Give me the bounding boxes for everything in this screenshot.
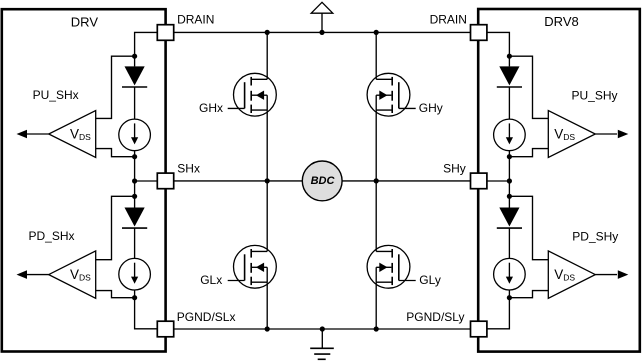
svg-text:SHy: SHy (443, 162, 466, 176)
wire PU junction to SHy node (508, 157, 510, 181)
svg-text:GLx: GLx (200, 273, 222, 287)
svg-text:DS: DS (563, 273, 575, 283)
svg-text:PGND/SLy: PGND/SLy (406, 310, 464, 324)
svg-text:DRAIN: DRAIN (430, 13, 467, 27)
wire x half-bridge (GHx source to mid bus) (266, 110, 268, 181)
junction mid bus / y half-bridge (374, 178, 379, 183)
wire PD comparator upper input (96, 196, 135, 259)
wire x half-bridge (mid bus to GLx drain) (266, 181, 268, 252)
terminal DRAIN (DRV) (157, 25, 173, 41)
wire diode D3 anode (508, 56, 510, 66)
svg-text:PU_SHx: PU_SHx (33, 88, 79, 102)
wire SHy node to PD branch right (508, 181, 510, 196)
svg-text:V: V (554, 267, 563, 282)
wire PD comparator upper input right (509, 196, 548, 259)
junction top bus / GHx drain (265, 30, 270, 35)
wire PU comparator upper input (96, 56, 135, 118)
wire SHx node to PD branch (134, 181, 136, 196)
comparator VDS PD_SHx (17, 251, 96, 298)
wire PU comparator upper input right (509, 56, 548, 118)
wire diode D1 anode (134, 56, 136, 66)
wire I4 to junction (508, 290, 510, 298)
transistor GHx (228, 73, 277, 116)
svg-text:PGND/SLx: PGND/SLx (177, 310, 236, 324)
wire y half-bridge drain (top bus to GHy) (375, 32, 377, 79)
label GLy (419, 273, 441, 287)
current source I3 (494, 119, 526, 151)
wire top bus (DRAIN to DRAIN) (174, 31, 471, 33)
label PD_SHx (29, 229, 75, 243)
wire y half-bridge (mid bus to GLy drain) (375, 181, 377, 252)
comparator VDS PU_SHy (548, 111, 628, 158)
wire D3 cathode to current source I3 (508, 87, 510, 119)
junction PU branch top right (507, 54, 512, 59)
svg-text:DRV: DRV (71, 14, 99, 29)
junction top bus / GHy drain (374, 30, 379, 35)
wire bottom bus (PGND/SLx to PGND/SLy) (174, 328, 471, 330)
label SHx (177, 161, 200, 175)
wire PU comparator lower input right (509, 149, 548, 157)
terminal PGND/SLx (157, 321, 173, 337)
junction top bus / supply (319, 30, 324, 35)
wire D2 cathode to current source I2 (134, 228, 136, 258)
wire x half-bridge drain (top bus to GHx) (266, 32, 268, 79)
comparator VDS PD_SHy (548, 251, 628, 298)
current source I2 (119, 258, 151, 290)
wire SHy internal to terminal (487, 180, 510, 182)
wire PD comparator lower input (96, 291, 135, 298)
label DRV (71, 14, 99, 29)
wire mid bus left (SHx to motor) (174, 180, 303, 182)
ground symbol (310, 329, 334, 359)
power supply VM symbol (311, 2, 333, 32)
wire PU junction to SHx node (134, 157, 136, 181)
diode D4 (497, 208, 522, 229)
svg-text:GLy: GLy (419, 273, 441, 287)
wire PD junction to PGND/SLy terminal (487, 298, 510, 329)
transistor GHy (367, 73, 416, 116)
label PD_SHy (572, 230, 618, 244)
wire I3 to junction (508, 151, 510, 157)
label PGND/SLy (406, 310, 464, 324)
wire SHx internal to terminal (135, 180, 158, 182)
diode D1 (122, 66, 147, 87)
junction SHx internal (132, 178, 137, 183)
terminal PGND/SLy (471, 321, 487, 337)
wire y half-bridge (GHy source to mid bus) (375, 110, 377, 181)
svg-text:V: V (70, 267, 79, 282)
diode D3 (497, 66, 522, 87)
svg-text:SHx: SHx (177, 161, 200, 175)
label DRAIN left (177, 13, 214, 27)
wire D4 cathode to current source I4 (508, 228, 510, 258)
junction bottom bus / ground (320, 326, 325, 331)
svg-text:PU_SHy: PU_SHy (572, 89, 618, 103)
junction PD branch bottom (132, 295, 137, 300)
svg-text:V: V (70, 126, 79, 141)
transistor GLy (367, 245, 416, 288)
junction bottom bus / GLy source (374, 326, 379, 331)
svg-text:GHy: GHy (419, 101, 443, 115)
label PGND/SLx (177, 310, 236, 324)
svg-text:PD_SHx: PD_SHx (29, 229, 75, 243)
diode D2 (122, 208, 147, 229)
junction bottom bus / GLx source (265, 326, 270, 331)
label SHy (443, 162, 466, 176)
label GLx (200, 273, 222, 287)
wire PD junction to PGND/SLx terminal (135, 298, 158, 329)
wire diode D4 anode (508, 196, 510, 207)
wire diode D2 anode (134, 196, 136, 207)
current source I4 (494, 258, 526, 290)
junction PU branch bottom right (507, 154, 512, 159)
junction mid bus / x half-bridge (265, 178, 270, 183)
svg-text:DRV8: DRV8 (544, 14, 578, 29)
wire mid bus right (motor to SHy) (342, 180, 470, 182)
svg-text:DS: DS (79, 132, 91, 142)
label GHy (419, 101, 443, 115)
wire DRAIN terminal to PU branch (135, 32, 158, 56)
svg-text:BDC: BDC (311, 175, 336, 187)
label DRV8 (544, 14, 578, 29)
comparator VDS PU_SHx (17, 111, 96, 158)
wire DRAIN terminal to PU branch right (487, 32, 510, 56)
terminal DRAIN (DRV8) (471, 25, 487, 41)
svg-text:DRAIN: DRAIN (177, 13, 214, 27)
junction PD branch top (132, 194, 137, 199)
svg-text:DS: DS (563, 132, 575, 142)
gate driver box DRV8 (right) (478, 9, 640, 352)
svg-text:GHx: GHx (199, 101, 223, 115)
svg-text:DS: DS (79, 273, 91, 283)
wire D1 cathode to current source I1 (134, 87, 136, 119)
wire I2 to junction (134, 290, 136, 298)
wire PD comparator lower input right (509, 291, 548, 298)
terminal SHy (471, 173, 487, 189)
wire y half-bridge (GLy source to bottom bus) (375, 282, 377, 329)
wire x half-bridge (GLx source to bottom bus) (266, 282, 268, 329)
label DRAIN right (430, 13, 467, 27)
label PU_SHx (33, 88, 79, 102)
label PU_SHy (572, 89, 618, 103)
junction SHy internal (507, 178, 512, 183)
transistor GLx (228, 245, 277, 288)
wire PU comparator lower input (96, 149, 135, 157)
current source I1 (119, 119, 151, 151)
motor BDC (302, 161, 342, 201)
junction PD branch bottom right (507, 295, 512, 300)
terminal SHx (157, 173, 173, 189)
wire I1 to junction (134, 151, 136, 157)
svg-text:PD_SHy: PD_SHy (572, 230, 618, 244)
junction PU branch bottom (132, 154, 137, 159)
junction PU branch top (132, 54, 137, 59)
gate driver box DRV (left) (2, 9, 166, 351)
svg-text:V: V (554, 126, 563, 141)
junction PD branch top right (507, 194, 512, 199)
label GHx (199, 101, 223, 115)
